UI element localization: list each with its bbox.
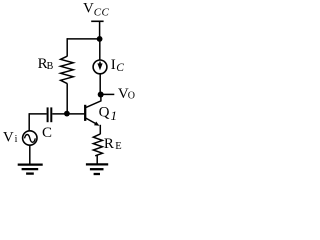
wire base rail right segment <box>52 113 84 115</box>
node VO junction dot <box>98 92 104 98</box>
wire VCC stem <box>99 21 101 39</box>
wire RE to ground <box>96 155 98 164</box>
resistor RB <box>61 56 74 83</box>
svg-text:I: I <box>111 57 116 73</box>
wire base rail left segment <box>29 113 46 115</box>
svg-text:i: i <box>15 134 18 145</box>
source Vi AC circle <box>23 131 37 145</box>
wire top rail <box>67 38 100 40</box>
capacitor C <box>47 107 49 122</box>
wire IC to collector node <box>99 74 101 95</box>
svg-text:1: 1 <box>111 108 118 123</box>
resistor RE <box>93 134 102 156</box>
ground left <box>18 163 43 165</box>
transistor Q1 base bar <box>84 105 86 121</box>
wire RB bottom to base rail <box>66 83 68 113</box>
ground right <box>86 163 108 165</box>
node base junction dot <box>64 111 70 117</box>
wire junction to IC circle <box>99 39 101 60</box>
wire input corner drop <box>28 113 30 131</box>
svg-text:C: C <box>42 125 52 141</box>
node top junction dot <box>97 36 103 42</box>
svg-text:O: O <box>128 91 135 102</box>
svg-text:CC: CC <box>94 6 110 18</box>
transistor Q1 emitter with arrow <box>86 118 96 123</box>
svg-text:Q: Q <box>99 104 110 120</box>
svg-text:R: R <box>104 136 114 152</box>
svg-text:B: B <box>47 61 54 72</box>
svg-text:V: V <box>3 130 14 146</box>
current source IC <box>93 60 107 74</box>
svg-text:V: V <box>83 1 94 17</box>
svg-text:C: C <box>116 62 124 74</box>
wire collector <box>86 95 101 108</box>
wire emitter drop <box>99 125 101 134</box>
wire left branch drop to RB <box>66 38 68 56</box>
power terminal VCC bar <box>91 20 103 22</box>
svg-text:E: E <box>115 141 121 152</box>
wire Vi to ground <box>29 145 31 164</box>
wire VO stub <box>101 93 115 95</box>
